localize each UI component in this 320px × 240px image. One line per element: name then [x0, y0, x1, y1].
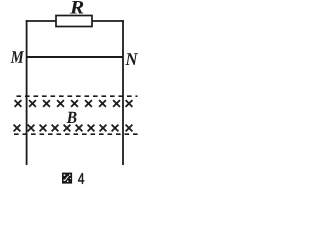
field cross row1: [15, 100, 133, 107]
field label B: [67, 112, 77, 123]
dashed field boundary bottom: [14, 133, 140, 135]
wire right rail: [122, 20, 124, 165]
caption glyph tu (figure): [62, 173, 72, 184]
node N label: [125, 53, 138, 65]
dashed field boundary top: [17, 95, 138, 97]
wire top-right from resistor to right rail corner: [92, 20, 124, 22]
conducting bar MN: [27, 56, 123, 58]
caption numeral 4: [78, 173, 84, 184]
field cross row2: [14, 125, 133, 132]
resistor R1 body: [56, 16, 92, 27]
node M label: [11, 51, 25, 63]
wire top-left from left rail corner to resistor: [26, 20, 56, 22]
resistor R1 label R: [70, 1, 83, 14]
wire left rail: [26, 20, 28, 165]
